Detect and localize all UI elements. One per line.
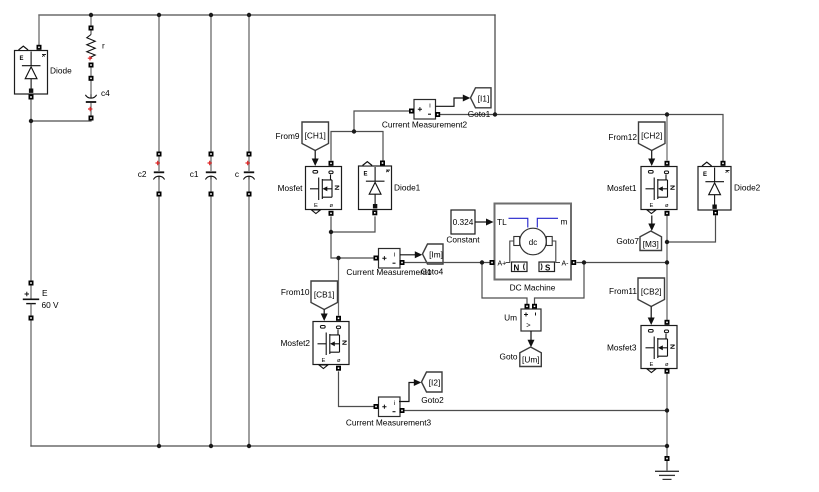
svg-text:[CB2]: [CB2] <box>641 287 662 297</box>
svg-text:Mosfet1: Mosfet1 <box>607 183 637 193</box>
From11 tag [CB2] <box>609 278 664 307</box>
svg-text:DC Machine: DC Machine <box>510 283 556 293</box>
svg-text:Diode: Diode <box>50 66 72 76</box>
svg-text:Mosfet2: Mosfet2 <box>280 338 310 348</box>
svg-text:[I2]: [I2] <box>429 378 441 388</box>
svg-text:c1: c1 <box>190 169 199 179</box>
mosfet Mosfet1 <box>607 167 677 214</box>
svg-text:[M3]: [M3] <box>643 239 659 249</box>
goto tag Goto [Um] <box>500 347 542 367</box>
capacitor c4 <box>85 80 110 116</box>
wire Diode anode down to battery and bottom rail <box>30 99 32 446</box>
svg-text:Diode1: Diode1 <box>394 183 421 193</box>
svg-text:m: m <box>561 217 568 227</box>
svg-text:Mosfet3: Mosfet3 <box>607 343 637 353</box>
wire Constant to TL <box>475 219 494 226</box>
svg-text:Goto7: Goto7 <box>616 236 639 246</box>
wire Um output arrow <box>528 331 535 347</box>
voltage measurement Um block <box>504 304 541 331</box>
wire From10 arrow to Mosfet2 gate <box>321 310 328 322</box>
wire From9 arrow to Mosfet gate <box>312 151 319 167</box>
dc source E 60V <box>23 285 59 316</box>
svg-text:From12: From12 <box>608 132 637 142</box>
svg-text:N: N <box>514 264 520 273</box>
current measurement2 block <box>382 100 468 130</box>
wire Mosfet1 drain riser <box>666 115 668 161</box>
diode Diode1 <box>359 162 421 210</box>
svg-text:[CH1]: [CH1] <box>305 131 326 141</box>
wire A- to right column <box>577 262 667 264</box>
node dots <box>29 13 669 448</box>
svg-text:[Um]: [Um] <box>522 355 540 365</box>
wire Um bracket left <box>482 263 527 305</box>
svg-text:From11: From11 <box>609 286 637 296</box>
svg-text:>: > <box>526 321 531 330</box>
current measurement1 block <box>346 249 432 278</box>
wire Mosfet1 m output arrow to Goto7 <box>648 216 655 232</box>
mosfet Mosfet <box>278 167 342 214</box>
wire From11 arrow to Mosfet3 gate <box>648 307 655 326</box>
wire Diode1 anode link <box>331 217 375 232</box>
capacitor c <box>235 156 255 192</box>
svg-text:Um: Um <box>504 313 517 323</box>
svg-text:[Im]: [Im] <box>429 250 443 260</box>
mosfet Mosfet2 <box>280 322 349 369</box>
svg-text:From9: From9 <box>276 131 300 141</box>
svg-text:c: c <box>235 169 239 179</box>
svg-text:A+: A+ <box>498 260 507 267</box>
svg-text:Current Measurement3: Current Measurement3 <box>346 418 432 428</box>
svg-text:c2: c2 <box>138 169 147 179</box>
wire c1 column <box>210 15 212 446</box>
svg-text:Mosfet: Mosfet <box>278 183 304 193</box>
svg-text:Current Measurement1: Current Measurement1 <box>346 267 432 277</box>
goto tag Goto7 [M3] <box>616 231 661 251</box>
svg-text:c4: c4 <box>101 88 110 98</box>
wire CM3 minus to ground column <box>404 410 667 412</box>
wire right drop x495 <box>494 15 496 115</box>
wire Mosfet2 drain riser <box>338 258 340 315</box>
svg-text:Diode2: Diode2 <box>734 183 761 193</box>
wire r top stub <box>90 15 92 26</box>
diode Diode2 <box>698 162 761 210</box>
wire Diode2 anode link <box>667 216 716 242</box>
svg-text:Constant: Constant <box>446 235 480 245</box>
svg-text:[I1]: [I1] <box>478 93 490 103</box>
wire Mosfet2 source to CM3 <box>339 372 375 407</box>
wire Mosfet-Diode1 top link <box>331 132 383 161</box>
svg-text:[CH2]: [CH2] <box>641 131 662 141</box>
goto tag Goto4 [Im] <box>421 244 444 277</box>
From9 tag [CH1] <box>276 122 329 151</box>
From10 tag [CB1] <box>281 281 338 310</box>
port squares <box>29 26 726 462</box>
wire CM1 minus to A+ (drawn over Goto4) <box>404 262 490 264</box>
goto tag Goto1 [I1] <box>468 88 491 119</box>
svg-text:Goto1: Goto1 <box>468 109 491 119</box>
wire right column x667 <box>666 216 668 456</box>
wire CM1 output to Goto4 <box>400 251 422 258</box>
svg-text:r: r <box>102 41 105 51</box>
svg-text:From10: From10 <box>281 287 310 297</box>
svg-text:60 V: 60 V <box>42 300 60 310</box>
wire CM3 output to Goto2 <box>399 379 421 402</box>
svg-text:[CB1]: [CB1] <box>314 290 335 300</box>
svg-text:TL: TL <box>497 217 507 227</box>
wire c4 bottom link <box>31 120 91 121</box>
svg-text:Goto4: Goto4 <box>421 267 444 277</box>
wire CM2 input <box>354 111 409 132</box>
ground <box>655 461 679 479</box>
wire minus rail y114.5 <box>439 115 723 162</box>
mosfet Mosfet3 <box>607 326 677 373</box>
wire top rail <box>39 14 495 16</box>
wire left drop to Diode <box>38 15 40 45</box>
goto tag Goto2 [I2] <box>421 372 444 405</box>
wire c2 column <box>158 15 160 446</box>
svg-text:Goto: Goto <box>500 352 518 362</box>
svg-text:0.324: 0.324 <box>453 217 474 227</box>
svg-text:A-: A- <box>562 260 570 267</box>
capacitor c2 <box>138 156 165 192</box>
svg-text:Goto2: Goto2 <box>421 395 444 405</box>
capacitor c1 <box>190 156 217 192</box>
diode Diode (top-left block) <box>15 46 73 94</box>
wire Um bracket right <box>535 263 585 305</box>
constant block 0.324 <box>446 210 480 245</box>
wire From12 arrow to Mosfet1 gate <box>648 151 655 167</box>
wire CM2 output to Goto1 <box>436 95 471 107</box>
wire r to c4 link <box>90 67 92 76</box>
wire Mosfet source to CM1 <box>331 217 374 258</box>
wire c column <box>248 15 250 446</box>
dc machine block <box>495 204 572 293</box>
wire bottom rail <box>31 445 667 447</box>
svg-text:E: E <box>42 288 48 298</box>
resistor r <box>87 26 105 60</box>
From12 tag [CH2] <box>608 122 665 151</box>
svg-text:S: S <box>545 264 551 273</box>
svg-text:dc: dc <box>529 238 537 247</box>
svg-text:Current Measurement2: Current Measurement2 <box>382 120 468 130</box>
current measurement3 block <box>346 397 432 428</box>
